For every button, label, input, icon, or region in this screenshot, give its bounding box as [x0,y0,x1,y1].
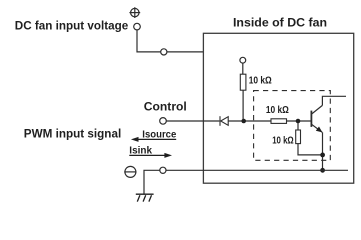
terminal: Control [160,118,167,125]
connector on input wire [161,49,167,55]
svg-text:Control: Control [144,100,187,114]
wire from diode to R2 [228,120,271,122]
connector on bottom rail [160,167,166,173]
enclosure: Inside of DC fan box [203,33,353,183]
wire from internal terminal to R1 [242,63,244,74]
wire from input terminal to fan box [137,30,203,52]
IC internal dashed enclosure [254,91,331,161]
current arrow Isource [131,137,176,142]
resistor R1 [240,74,246,90]
wire from emitter down to bottom rail [322,132,324,170]
svg-text:DC fan input voltage: DC fan input voltage [15,19,129,33]
wire from base node down to R3 [297,123,299,130]
transistor Q1 [311,105,322,132]
resistor R2 [271,119,287,124]
bottom rail wire from ground to fan circuitry [144,170,348,194]
junction node emitter / bottom rail [320,168,325,173]
wire from R3 to emitter node [298,144,323,155]
svg-text:10 kΩ: 10 kΩ [272,135,294,146]
terminal: internal supply node [240,57,246,63]
ground [136,194,154,201]
terminal: DC fan input voltage [134,23,141,30]
svg-text:PWM input signal: PWM input signal [24,126,121,140]
svg-text:10 kΩ: 10 kΩ [249,76,272,87]
junction node emitter / R3 [320,153,325,158]
svg-text:10 kΩ: 10 kΩ [266,105,289,116]
negative supply symbol [124,166,136,177]
wire from R2 to transistor base [287,120,311,122]
wire from collector to fan circuitry [322,96,346,105]
resistor R3 [296,130,301,144]
wire from R1 to control rail [242,90,244,121]
current arrow Isink [129,153,172,158]
junction node at transistor base [296,119,301,124]
positive supply symbol [129,7,140,18]
wire from control terminal to diode [166,120,219,122]
diode D1 [220,116,228,126]
svg-text:Inside of DC fan: Inside of DC fan [233,15,327,29]
junction node at R1 bottom [241,119,246,124]
